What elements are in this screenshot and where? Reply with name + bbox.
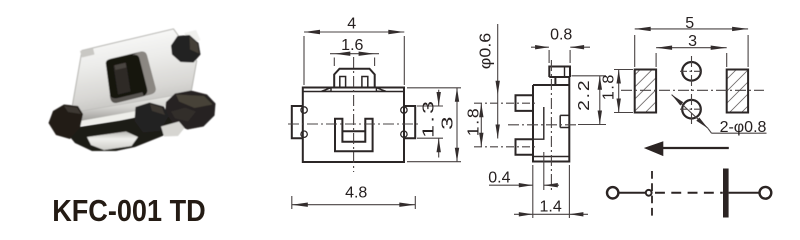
svg-text:5: 5 [685, 15, 694, 32]
front button slot right [362, 77, 368, 88]
dim 1.4 arrows [519, 212, 533, 216]
dim 4.8 arrows [292, 203, 308, 207]
photo: bottom-right terminal [161, 122, 185, 137]
top view right pad [727, 70, 748, 113]
dim 1.6 ext lines [333, 58, 335, 67]
svg-text:1.8: 1.8 [464, 107, 482, 137]
front vertical centerline [353, 57, 355, 172]
svg-text:φ0.6: φ0.6 [477, 33, 495, 69]
front button slot left [340, 77, 346, 88]
dim 1.3 line with outside arrows [438, 90, 440, 106]
front left tab [292, 106, 303, 138]
dim 3 ext lines [655, 53, 657, 67]
dim 3 arrows [455, 88, 459, 102]
photo: black base band [68, 106, 194, 151]
dim 4 ext lines [303, 36, 305, 85]
side lower pin [516, 139, 534, 155]
svg-text:2-φ0.8: 2-φ0.8 [720, 119, 767, 136]
dim 0.4 arrows [519, 183, 533, 187]
side cap [549, 67, 570, 78]
dim 5 line [635, 28, 748, 30]
svg-text:4: 4 [347, 16, 356, 33]
schematic contact small circle [646, 190, 652, 196]
leader 2-phi0.8 [672, 95, 708, 129]
front tab circle bottom-right [401, 131, 407, 137]
dim 3 line [656, 47, 727, 49]
top view upper circle [682, 62, 701, 81]
photo: black pin inside window [114, 63, 131, 95]
photo: window inner right wall highlight [132, 52, 155, 96]
dim 1.8 top arrows [617, 70, 621, 84]
dim 0.8 arrows [535, 45, 549, 49]
dim 1.8 top line [618, 70, 620, 113]
front flange chamfer right [376, 88, 386, 92]
top horizontal centerline [621, 89, 764, 91]
svg-text:1.4: 1.4 [539, 199, 561, 216]
schematic wire right [729, 192, 760, 194]
top view centerlines [621, 56, 764, 125]
front tab circle bottom-left [301, 131, 307, 137]
dim 5 ext lines [634, 35, 636, 67]
photo: right side actuator [165, 91, 216, 130]
dim 1.8 pins line [480, 103, 482, 147]
dim 4.8 ext lines [291, 196, 293, 209]
dim 1.8 top ext lines [614, 69, 633, 71]
svg-text:1.8: 1.8 [600, 73, 617, 100]
svg-text:1.6: 1.6 [341, 37, 363, 54]
schematic wire left [618, 192, 646, 194]
dim 3 line [456, 88, 458, 162]
dim 1.6 line [330, 53, 379, 55]
front flange chamfer left [322, 88, 332, 92]
svg-text:2.2: 2.2 [575, 78, 593, 110]
svg-text:3: 3 [688, 33, 697, 50]
leader phi0.6 line [497, 24, 499, 139]
top upper circle tick [680, 70, 703, 72]
dim 1.4 line [514, 213, 588, 215]
schematic right terminal circle [760, 187, 772, 199]
dim 5 arrows [635, 27, 651, 31]
side view dimensions [481, 24, 606, 218]
front tab circle top-left [301, 107, 307, 113]
side seam line [533, 156, 569, 158]
dim 3 arrows [656, 46, 672, 50]
dim 3 ext lines [407, 87, 461, 89]
side body outline [533, 77, 569, 162]
top view lower circle [682, 100, 701, 119]
svg-text:4.8: 4.8 [345, 184, 367, 201]
photo: top-right metal sliver [184, 30, 201, 44]
front flange underside line [303, 91, 404, 93]
top lower circle tick [680, 108, 703, 110]
dim 4 line [304, 31, 404, 33]
photo: top-right post facet [190, 37, 200, 54]
svg-text:0.8: 0.8 [550, 27, 572, 44]
schematic dashed horizontal [655, 192, 723, 194]
side view centerlines [474, 60, 578, 192]
top vertical centerline [691, 56, 693, 125]
dim 0.8 line [531, 46, 549, 48]
side vertical centerline [550, 60, 552, 192]
dim 2.2 line [599, 76, 601, 125]
front horizontal centerline [288, 123, 420, 125]
photo: pin top highlight [115, 63, 127, 70]
photo: front lower metal lip [75, 101, 194, 127]
photo: actuator mid facet [171, 108, 196, 122]
side upper pin [516, 95, 534, 111]
dim 1.4 ext line right [568, 165, 570, 218]
photo: actuator top facet [176, 95, 213, 109]
side upper pin centerline [474, 102, 538, 104]
front right tab [404, 106, 415, 138]
photo: top-left small step [80, 48, 95, 58]
svg-text:1.3: 1.3 [420, 99, 438, 138]
schematic dashed vertical [651, 171, 653, 218]
photo: front-left black post [49, 105, 84, 140]
top view dimensions [614, 29, 767, 133]
dim 1.3 ext lines [417, 105, 443, 107]
svg-text:0.4: 0.4 [488, 170, 510, 187]
dim 2.2 ext lines [572, 75, 607, 77]
dim 2.2 arrows [598, 76, 602, 90]
photo: front-left post facet [64, 106, 81, 114]
schematic arrow head [644, 141, 664, 156]
side step under cap [549, 77, 570, 85]
dim 1.6 arrows [334, 52, 350, 56]
phi0.6 leader arrows [496, 81, 500, 95]
dim 1.3 arrows [437, 92, 441, 106]
dim 0.4 ext lines [532, 165, 534, 218]
front view centerlines [288, 57, 420, 172]
photo: bottom-left bright terminal strip [87, 132, 138, 151]
dim 0.4 line [489, 184, 533, 186]
schematic actuator bar [723, 169, 729, 218]
dim 1.8 arrows [479, 103, 483, 117]
side horizontal centerline [508, 124, 578, 126]
leader 2-phi0.8 arrows [672, 95, 684, 106]
side inner contour [533, 107, 544, 139]
photo: front-center post facet [150, 104, 165, 115]
side right bump [560, 115, 569, 127]
dim 0.8 ext lines [548, 50, 550, 63]
photo: metal front bevel face [71, 93, 193, 122]
top view left pad [635, 70, 656, 113]
photo: window inner bottom sliver [110, 92, 144, 103]
schematic left terminal circle [607, 187, 618, 198]
front body outline [303, 88, 404, 163]
front view dimensions [292, 32, 461, 209]
svg-text:3: 3 [439, 114, 456, 130]
schematic arrow tail [660, 147, 729, 149]
side lower pin centerline [474, 146, 538, 148]
photo: metal top face [71, 29, 197, 113]
dim 4.8 line [292, 204, 416, 206]
front tab circle top-right [401, 107, 407, 113]
photo: front-center black post [135, 103, 169, 133]
photo: left corner metal wedge [62, 106, 79, 127]
photo: top-right corner post [171, 35, 201, 63]
front inner contact bracket [335, 119, 373, 152]
dim 4 arrows [304, 30, 320, 34]
front button stem [334, 69, 375, 88]
svg-text:KFC-001 TD: KFC-001 TD [52, 193, 206, 228]
front bracket crossbar [342, 130, 365, 132]
photo: black window cavity [106, 52, 156, 103]
side cap inner line [564, 67, 566, 78]
